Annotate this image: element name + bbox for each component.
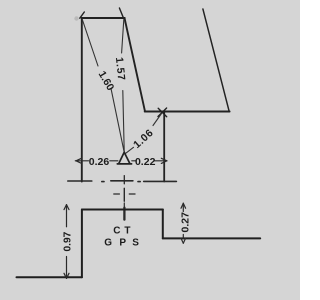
svg-text:G: G: [104, 238, 112, 249]
svg-text:0.27: 0.27: [180, 212, 192, 233]
svg-text:C: C: [113, 225, 120, 236]
svg-text:T: T: [124, 225, 130, 236]
svg-text:0.26: 0.26: [89, 156, 110, 168]
svg-text:S: S: [132, 238, 139, 249]
svg-text:0.22: 0.22: [135, 156, 156, 168]
svg-text:1.57: 1.57: [113, 56, 127, 81]
svg-text:P: P: [119, 238, 126, 249]
svg-text:0.97: 0.97: [63, 231, 74, 251]
svg-text:1.06: 1.06: [131, 127, 156, 151]
svg-text:1.60: 1.60: [96, 69, 117, 93]
